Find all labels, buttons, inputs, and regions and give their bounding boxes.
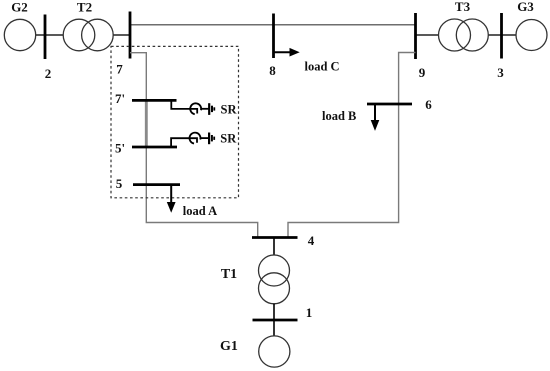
bus 5': [132, 146, 177, 149]
bus 7: [129, 12, 132, 59]
bus 9: [414, 13, 417, 59]
wire bus 7' to SR1: [171, 100, 197, 113]
bus 2: [44, 15, 47, 60]
svg-text:7': 7': [115, 91, 125, 106]
generator G2: [4, 19, 35, 50]
bus 8: [272, 14, 275, 59]
wire top line bus7 to bus9: [130, 24, 416, 26]
svg-text:T2: T2: [77, 0, 92, 15]
wire bus 4 to T1: [273, 238, 275, 256]
wire bus 9 tap down to bus 4: [288, 53, 416, 238]
svg-text:T3: T3: [455, 0, 471, 14]
transformer T2: [63, 19, 113, 51]
bus 1: [253, 319, 298, 322]
svg-text:5: 5: [116, 176, 123, 191]
wire feeder 7' to 5' (thick): [145, 101, 148, 148]
svg-text:SR: SR: [220, 132, 237, 146]
wire SR1 to ground: [201, 108, 209, 110]
svg-text:9: 9: [419, 65, 426, 80]
load B arrow: [371, 104, 380, 131]
svg-text:T1: T1: [221, 267, 237, 282]
svg-text:G2: G2: [11, 0, 28, 15]
svg-text:6: 6: [425, 97, 432, 112]
svg-text:load C: load C: [305, 60, 340, 74]
reactor SR1 coil: [190, 103, 201, 114]
svg-text:load A: load A: [183, 204, 217, 218]
svg-text:SR: SR: [221, 103, 238, 117]
ground SR2: [209, 133, 214, 145]
svg-text:3: 3: [497, 65, 504, 80]
svg-text:8: 8: [269, 63, 276, 78]
bus 7': [132, 99, 177, 102]
wire G2 to bus 2 to T2: [36, 34, 64, 36]
wire bus 9 to T3: [416, 34, 439, 36]
svg-text:4: 4: [308, 233, 315, 248]
svg-text:7: 7: [116, 62, 123, 77]
svg-text:1: 1: [306, 305, 313, 320]
load C arrow: [274, 48, 300, 57]
svg-text:5': 5': [115, 141, 125, 156]
bus 5: [133, 183, 180, 186]
wire T2 to bus 7: [113, 34, 130, 36]
dashed box SR compensation area: [111, 46, 239, 197]
load A arrow: [167, 185, 176, 213]
wire T3 to bus 3 to G3: [488, 34, 516, 36]
generator G1: [259, 336, 290, 367]
wire SR2 to ground: [201, 137, 209, 139]
ground SR1: [209, 103, 214, 115]
transformer T1: [259, 255, 290, 304]
bus 3: [500, 13, 503, 59]
wire feeder 5' to 5 to bottom: [146, 147, 257, 238]
svg-text:2: 2: [45, 66, 52, 81]
svg-text:G3: G3: [517, 0, 534, 14]
wire bus 7 tap to left feeder: [130, 53, 146, 101]
bus 4: [252, 236, 298, 239]
bus 6: [367, 103, 412, 106]
generator G3: [516, 20, 547, 51]
reactor SR2 coil: [189, 133, 200, 144]
wire bus 5' to SR2: [171, 138, 197, 147]
wire T1 to bus 1: [273, 304, 275, 320]
svg-text:G1: G1: [220, 339, 238, 354]
transformer T3: [439, 19, 489, 51]
wire bus 1 to G1: [273, 320, 275, 336]
svg-text:load B: load B: [322, 109, 356, 123]
